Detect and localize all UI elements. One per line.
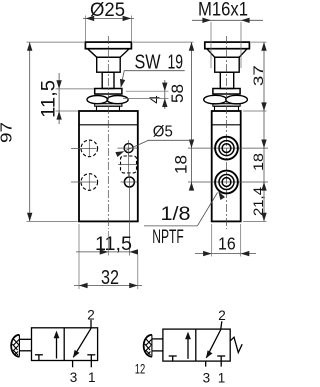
hex nut ellipse right: [107, 96, 128, 104]
upper port cross lines: [118, 147, 138, 149]
button cap trapezoid: [88, 49, 130, 57]
svg-text:37: 37: [251, 65, 266, 86]
stem side: [220, 72, 233, 88]
svg-text:2: 2: [218, 308, 226, 323]
blocked port right square: [87, 354, 95, 356]
cap plate side: [205, 42, 250, 49]
upper port circles side: [215, 137, 238, 160]
blocked port right square: [217, 355, 225, 357]
port 1 stub: [90, 361, 92, 368]
hex nut ellipse left: [87, 96, 108, 104]
svg-text:1: 1: [88, 370, 96, 385]
diagonal passage: [73, 328, 91, 357]
body: [79, 111, 138, 221]
port 2 line: [90, 320, 92, 328]
svg-text:12: 12: [135, 361, 146, 376]
mushroom button left symbol: [11, 335, 19, 357]
svg-text:3: 3: [70, 370, 78, 385]
neck side: [215, 106, 239, 111]
hidden pocket middle (dashed): [121, 156, 137, 173]
lower port small circle: [124, 177, 134, 187]
centerline front: [107, 36, 109, 229]
blocked port left square: [169, 355, 177, 357]
symbol box right: [163, 329, 230, 361]
svg-text:58: 58: [169, 84, 187, 103]
collar side: [215, 57, 240, 72]
centerline side: [226, 36, 228, 229]
svg-text:M16x1: M16x1: [198, 0, 248, 21]
actuator stem lines: [152, 338, 163, 340]
body side: [212, 111, 241, 221]
washer: [95, 104, 122, 107]
svg-text:Ø5: Ø5: [153, 124, 173, 141]
blocked port left square: [35, 354, 43, 356]
lower port cross + extension down to 11.5 dim: [121, 181, 138, 183]
trapezoid side: [207, 49, 247, 57]
flow arrow: [187, 334, 189, 359]
svg-text:18: 18: [173, 155, 191, 174]
svg-text:19: 19: [168, 51, 184, 73]
divider: [63, 328, 65, 361]
nut plate side: [213, 89, 240, 95]
port 3 stub: [72, 361, 74, 368]
washer side: [213, 104, 240, 107]
mushroom button right symbol: [144, 335, 152, 357]
nut ellipse left side: [204, 95, 227, 104]
diagonal passage: [206, 330, 221, 358]
body cover line: [79, 124, 138, 126]
actuator stem lines: [20, 338, 32, 340]
svg-text:1/8: 1/8: [161, 204, 191, 225]
hidden hole lower left (dashed): [81, 174, 98, 191]
cover line side: [212, 124, 241, 126]
svg-text:1: 1: [218, 371, 226, 386]
neck: [97, 106, 120, 111]
port extension lines across: [188, 147, 268, 149]
svg-text:3: 3: [203, 371, 211, 386]
button cap plate: [85, 42, 131, 49]
flow arrow: [56, 333, 58, 359]
svg-text:NPTF: NPTF: [152, 227, 184, 248]
hidden hole upper left (dashed): [81, 140, 98, 157]
button collar: [97, 57, 121, 72]
button stem: [102, 72, 114, 88]
svg-text:Ø25: Ø25: [90, 0, 125, 21]
divider: [195, 329, 197, 361]
upper port small circle: [124, 144, 133, 153]
svg-text:97: 97: [0, 122, 15, 143]
nut plate: [95, 89, 122, 95]
nut ellipse right side: [226, 95, 248, 104]
svg-text:4: 4: [147, 95, 164, 103]
lower port circles side: [215, 171, 238, 194]
svg-text:2: 2: [87, 308, 95, 323]
svg-text:SW: SW: [135, 51, 161, 73]
svg-text:11,5: 11,5: [39, 80, 60, 118]
port 1 stub: [220, 361, 222, 367]
svg-text:16: 16: [218, 234, 236, 254]
port 2 line: [221, 321, 222, 329]
port 3 stub: [205, 361, 207, 367]
spring: [230, 337, 242, 352]
symbol box left: [32, 328, 98, 361]
